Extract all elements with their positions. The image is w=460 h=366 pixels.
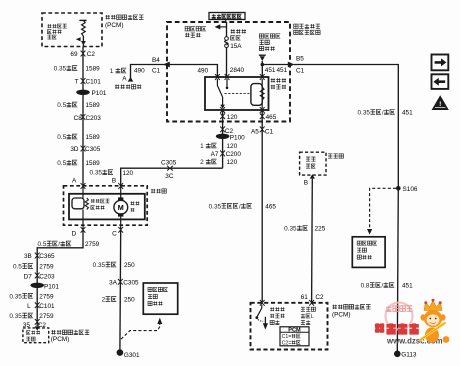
connector C365 pin 3B — [35, 253, 40, 259]
svg-text:B: B — [112, 177, 116, 184]
svg-text:0.5: 0.5 — [57, 160, 66, 167]
svg-text:(PCM): (PCM) — [332, 311, 350, 318]
svg-text:465: 465 — [265, 203, 276, 210]
svg-text:2759: 2759 — [39, 293, 54, 300]
fuel pump relay box — [205, 77, 269, 110]
svg-text:L: L — [27, 303, 31, 310]
svg-text:3D: 3D — [70, 146, 79, 153]
svg-text:/: / — [58, 241, 60, 248]
ground distribution reference box right — [352, 237, 385, 268]
svg-text:B: B — [304, 179, 308, 186]
fuel sender/pump assembly inner box — [69, 194, 145, 220]
underhood accessory wiring junction block, dashed box — [167, 22, 290, 122]
svg-text:120: 120 — [227, 114, 238, 121]
connector C305 pin 3D — [81, 146, 86, 152]
connector C2 on wire 120 — [220, 126, 225, 132]
svg-text:/: / — [381, 282, 383, 289]
svg-text:15A: 15A — [230, 43, 242, 50]
fuel pump fuse 15A — [226, 22, 228, 37]
svg-text:C203: C203 — [86, 115, 102, 122]
svg-text:451: 451 — [402, 282, 413, 289]
svg-text:C2: C2 — [87, 51, 96, 58]
svg-text:0.8: 0.8 — [361, 282, 370, 289]
svg-text:120: 120 — [227, 159, 238, 166]
svg-text:C1: C1 — [296, 68, 305, 75]
connector C1 pin B4 (into underhood junction block) — [163, 62, 170, 68]
svg-text:C203: C203 — [39, 273, 55, 280]
relay output terminals 120 and 465 — [222, 110, 224, 168]
svg-text:0.35: 0.35 — [90, 170, 103, 177]
svg-text:C1: C1 — [265, 128, 274, 135]
svg-text:2759: 2759 — [85, 241, 100, 248]
tank pin bowties A and B — [81, 183, 86, 189]
PCM box bottom-right (fuel pump relay control / generator L) — [251, 303, 328, 350]
svg-text:0.35: 0.35 — [9, 313, 22, 320]
svg-text:120: 120 — [227, 143, 238, 150]
svg-text:C200: C200 — [226, 151, 242, 158]
page-forward arrow icon — [432, 55, 449, 71]
svg-text:2: 2 — [102, 297, 106, 304]
ground distribution reference box near G301 — [143, 283, 177, 314]
svg-text:C1: C1 — [152, 68, 161, 75]
svg-text:1: 1 — [200, 143, 204, 150]
svg-text:D: D — [72, 231, 77, 238]
svg-text:1589: 1589 — [86, 160, 101, 167]
dashed branch from S106 to ground distribution box — [370, 188, 396, 229]
svg-text:C305: C305 — [123, 280, 139, 287]
relay terminals — [215, 74, 220, 80]
svg-text:B5: B5 — [296, 55, 304, 62]
svg-text:A5: A5 — [251, 128, 259, 135]
svg-text:0.5: 0.5 — [57, 134, 66, 141]
connector C2 pin 69 — [81, 51, 86, 57]
generator pin B arrow — [310, 174, 315, 178]
svg-text:451: 451 — [402, 109, 413, 116]
PCM module box (fuel level sensor input), top-left — [42, 13, 102, 47]
svg-text:C101: C101 — [39, 303, 55, 310]
dashed branch from wire 250 to ground distribution box — [157, 318, 162, 324]
connector C203 pin D7 — [35, 273, 40, 279]
svg-text:A: A — [72, 177, 77, 184]
pass-through grommet P100 — [216, 134, 230, 139]
svg-text:490: 490 — [198, 68, 209, 75]
svg-text:/: / — [382, 109, 384, 116]
svg-text:/: / — [239, 203, 241, 210]
variable resistor (fuel level sensor input) inside PCM — [79, 19, 86, 21]
svg-text:C8: C8 — [74, 115, 83, 122]
svg-text:0.35: 0.35 — [54, 66, 67, 73]
svg-text:0.35: 0.35 — [93, 262, 106, 269]
connector C101 pin L — [35, 302, 40, 308]
hot-at-all-times title box — [209, 13, 245, 20]
splice S106 — [396, 186, 401, 191]
relay coil with parallel loop — [261, 79, 263, 87]
ground G113 — [394, 351, 401, 358]
dzsc mascot figure — [420, 299, 450, 343]
svg-text:B4: B4 — [152, 57, 160, 64]
svg-text:250: 250 — [124, 297, 135, 304]
svg-text:C2=: C2= — [282, 340, 292, 346]
wire 451 into relay coil, junction to C1 B5 — [261, 61, 263, 77]
svg-text:0.35: 0.35 — [358, 109, 371, 116]
wire 2840 from fuse to relay — [226, 48, 228, 77]
svg-text:1589: 1589 — [86, 134, 101, 141]
PCM sensor-ground box, bottom-left — [35, 326, 40, 330]
svg-text:1: 1 — [110, 68, 114, 75]
connector C305 pin 3A — [118, 279, 123, 285]
svg-text:1589: 1589 — [86, 66, 101, 73]
pass-through grommet P101 — [76, 90, 90, 95]
connector C305 pin 3C — [167, 166, 173, 171]
svg-text:225: 225 — [315, 225, 326, 232]
wire 250 from tank pin C to ground G301 — [119, 230, 122, 351]
svg-text:C: C — [112, 231, 117, 238]
wire 451 black/white from junction block to ground G113 — [294, 65, 399, 189]
svg-text:!: ! — [439, 101, 441, 108]
svg-text:P101: P101 — [44, 283, 59, 290]
svg-text:490: 490 — [134, 68, 145, 75]
svg-text:451: 451 — [277, 67, 288, 74]
reference arrow to power distribution diagram — [185, 27, 189, 31]
wire 120 horizontal run to fuel tank pin B — [121, 168, 223, 186]
PCM connector color legend table — [280, 327, 309, 346]
svg-text:2759: 2759 — [39, 313, 54, 320]
svg-text:1589: 1589 — [86, 102, 101, 109]
svg-text:0.35: 0.35 — [284, 225, 297, 232]
connector A5 C1 on wire 465 — [260, 126, 265, 132]
svg-text:G113: G113 — [401, 352, 417, 359]
PCM pin 35 C2 — [35, 319, 40, 325]
svg-text:C1=: C1= — [282, 334, 292, 340]
svg-text:465: 465 — [266, 114, 277, 121]
ground G301 — [117, 349, 124, 356]
svg-text:S106: S106 — [403, 186, 418, 193]
pass-through grommet P101 — [30, 283, 44, 288]
connector C203 pin C8 — [81, 114, 86, 120]
svg-text:PCM: PCM — [288, 327, 301, 333]
svg-text:451: 451 — [265, 67, 276, 74]
svg-text:P101: P101 — [92, 90, 107, 97]
wire 1589 from PCM pin 69/C2 down to fuel tank pin A — [82, 47, 84, 187]
fuel tank dashed box — [64, 186, 148, 225]
warning triangle icon — [432, 95, 449, 110]
svg-text:C2: C2 — [315, 294, 324, 301]
svg-text:0.35: 0.35 — [9, 293, 22, 300]
svg-text:A7: A7 — [211, 151, 219, 158]
svg-text:L: L — [311, 314, 314, 320]
generator L-terminal input box — [300, 152, 326, 175]
svg-text:69: 69 — [70, 51, 78, 58]
fuel pump relay control driver symbol — [261, 305, 263, 308]
svg-text:C305: C305 — [85, 146, 101, 153]
wire 490 inside junction block — [167, 65, 217, 78]
svg-text:0.5: 0.5 — [57, 102, 66, 109]
fuel level sensor resistor with loop — [82, 186, 84, 198]
relay switch contact — [216, 79, 218, 86]
svg-text:2840: 2840 — [230, 67, 245, 74]
svg-text:C365: C365 — [39, 253, 55, 260]
svg-text:250: 250 — [124, 262, 135, 269]
fuel pump motor M — [120, 186, 122, 200]
svg-text:0.5: 0.5 — [13, 264, 22, 271]
dzsc watermark stamp — [386, 303, 413, 330]
svg-text:(PCM): (PCM) — [105, 22, 123, 29]
svg-text:A: A — [122, 76, 127, 83]
connector C101 pin T — [81, 78, 86, 84]
svg-text:C101: C101 — [86, 79, 102, 86]
page-back arrow icon — [432, 74, 449, 89]
svg-text:0.5: 0.5 — [38, 241, 47, 248]
svg-text:M: M — [118, 203, 124, 212]
svg-text:P100: P100 — [230, 135, 245, 142]
svg-text:3B: 3B — [24, 253, 32, 260]
connector C1 pin B5 exit arrow — [288, 62, 295, 68]
svg-text:G301: G301 — [124, 352, 140, 359]
svg-text:0.35: 0.35 — [209, 203, 222, 210]
svg-text:C305: C305 — [161, 159, 177, 166]
svg-text:(PCM): (PCM) — [51, 336, 69, 343]
tank pin bowties D and C — [81, 227, 86, 233]
svg-text:61: 61 — [301, 294, 309, 301]
svg-text:3A: 3A — [109, 280, 118, 287]
svg-text:120: 120 — [122, 170, 133, 177]
svg-text:D7: D7 — [24, 273, 33, 280]
svg-text:T: T — [75, 79, 79, 86]
connector C200 pin A7 — [220, 151, 225, 157]
wire 2759 from tank pin D to PCM pin 35 — [37, 230, 83, 326]
wire 490 red to fuel pump prime connector — [131, 65, 169, 79]
svg-text:2759: 2759 — [39, 264, 54, 271]
reference arrow from ground distribution diagram — [259, 34, 263, 38]
fuel pump prime terminal arrow, node A — [128, 77, 134, 82]
svg-text:3C: 3C — [165, 173, 174, 180]
svg-text:2: 2 — [200, 159, 204, 166]
